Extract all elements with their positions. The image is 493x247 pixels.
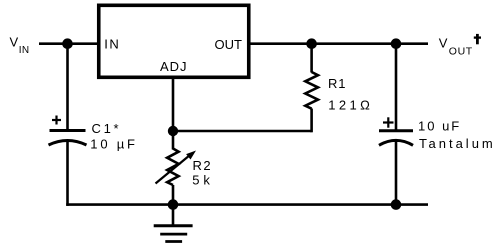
rheostat R2 zigzag: [167, 149, 179, 186]
ground: [154, 226, 193, 242]
svg-text:ADJ: ADJ: [160, 59, 188, 74]
resistor R1 label: [328, 76, 373, 112]
wire left rail lower: [66, 141, 69, 206]
wire ADJ node to R1 bottom: [173, 130, 312, 133]
svg-text:10 µF: 10 µF: [90, 136, 138, 151]
svg-text:Tantalum: Tantalum: [419, 136, 493, 151]
junction dot ADJ node: [168, 126, 178, 136]
rheostat R2 arrow: [156, 151, 197, 184]
capacitor C1 plus sign: [52, 116, 61, 125]
junction dot input node: [62, 38, 73, 49]
junction dot C2 top: [391, 38, 402, 49]
svg-text:IN: IN: [104, 37, 120, 52]
svg-text:IN: IN: [19, 45, 30, 56]
svg-text:R1: R1: [328, 76, 346, 91]
svg-text:C1*: C1*: [92, 121, 122, 136]
capacitor C1 label: [90, 121, 138, 152]
resistor R1 bottom lead: [310, 109, 313, 133]
svg-text:121Ω: 121Ω: [328, 97, 373, 112]
svg-text:OUT: OUT: [449, 46, 473, 58]
node VIN label: [10, 34, 30, 56]
rheostat R2 bottom lead: [172, 185, 175, 206]
junction dot C2 bottom: [391, 199, 402, 210]
svg-text:V: V: [10, 34, 19, 49]
junction dot R2 bottom: [168, 199, 179, 210]
regulator U1 box: [99, 5, 249, 77]
svg-text:OUT: OUT: [215, 37, 243, 52]
node VOUT label: [439, 34, 481, 58]
svg-text:V: V: [439, 35, 448, 50]
wire VIN to IN pin: [39, 42, 98, 45]
svg-text:R2: R2: [193, 158, 213, 173]
rheostat R2 label: [192, 158, 213, 187]
capacitor C2 top plate: [379, 129, 413, 132]
wire OUT pin to VOUT: [249, 42, 428, 45]
svg-text:5k: 5k: [192, 173, 213, 188]
svg-text:10 uF: 10 uF: [418, 119, 461, 134]
ground stub: [172, 205, 175, 226]
capacitor C2 curved plate: [379, 140, 413, 145]
resistor R1 zigzag: [305, 72, 318, 109]
wire right rail lower: [395, 141, 398, 206]
capacitor C1 curved plate: [49, 141, 87, 146]
resistor R1 top lead: [310, 44, 313, 73]
wire left rail upper: [66, 44, 69, 131]
wire bottom rail: [66, 203, 428, 206]
junction dot R1 top: [306, 38, 317, 49]
wire ADJ pin down: [172, 77, 175, 150]
capacitor C2 label: [418, 119, 493, 152]
capacitor C1 top plate: [50, 129, 86, 132]
wire right rail upper: [395, 44, 398, 131]
capacitor C2 plus sign: [383, 117, 394, 127]
